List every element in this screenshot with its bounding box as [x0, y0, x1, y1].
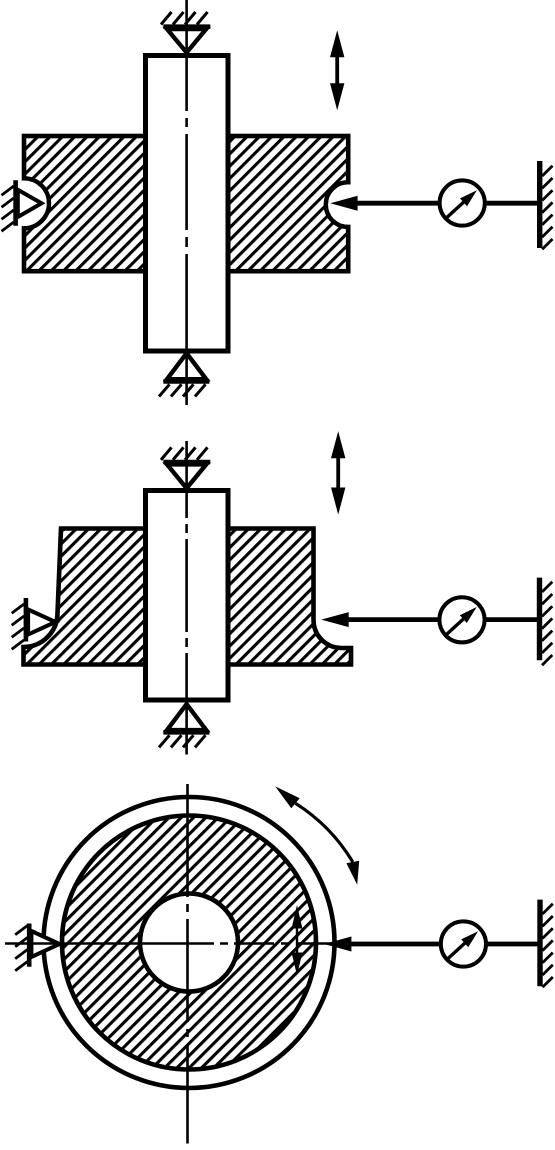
- centre support bottom 2: [159, 704, 209, 747]
- notch right (centre hole): [326, 182, 369, 227]
- measuring line 2: [345, 617, 538, 622]
- notch left (centre hole): [1, 178, 49, 228]
- dial indicator 1: [440, 180, 485, 225]
- fixed support left 2: [12, 598, 56, 649]
- centre support top 1: [161, 12, 210, 53]
- fixed wall 2: [540, 578, 553, 666]
- outer circle (rim): [44, 797, 335, 1088]
- measuring line 1: [352, 201, 538, 206]
- hub disc (hatched): [62, 816, 316, 1070]
- centreline shaft 1: [185, 0, 188, 405]
- bore hole: [140, 894, 238, 992]
- centre support bottom 1: [159, 353, 209, 396]
- fixed support left 1: [2, 180, 42, 231]
- measuring arrowhead 1: [330, 196, 357, 211]
- movement double arrow 1: [330, 30, 344, 110]
- measuring arrowhead 2: [321, 612, 348, 627]
- workpiece flanged hub (hatched): [24, 529, 352, 665]
- dial indicator 2: [439, 597, 484, 642]
- measuring arrowhead 3: [324, 937, 351, 952]
- centreline vertical 3: [186, 784, 189, 1144]
- block left (hatched): [24, 136, 146, 271]
- fixed wall 1: [540, 161, 553, 249]
- centreline shaft 2: [185, 441, 188, 755]
- shaft (mandrel): [146, 56, 229, 352]
- movement double arrow 2: [331, 431, 345, 514]
- centre support top 2: [161, 447, 210, 488]
- fixed support left 3: [15, 924, 59, 971]
- shaft 2: [146, 491, 229, 701]
- radial play double arrow: [292, 905, 303, 976]
- centreline horizontal 3: [5, 942, 332, 945]
- rotation arc arrow: [275, 786, 359, 884]
- block right (hatched): [228, 136, 349, 271]
- measuring line 3: [348, 942, 538, 947]
- fixed wall 3: [540, 900, 553, 988]
- dial indicator 3: [441, 921, 486, 966]
